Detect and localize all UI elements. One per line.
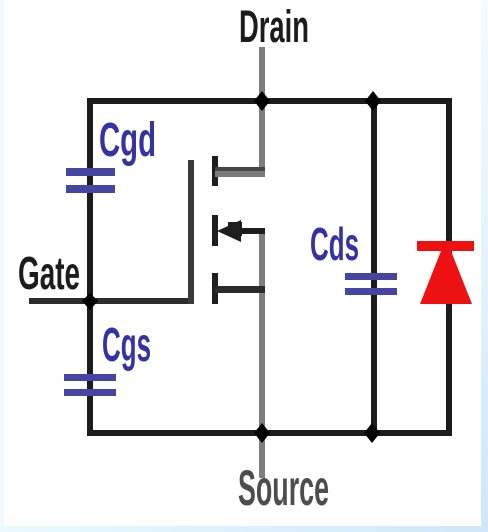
svg-text:Gate: Gate xyxy=(18,247,80,299)
transistor Q1 channel segment drain xyxy=(212,156,218,186)
transistor Q1 drain horizontal xyxy=(215,167,265,171)
svg-text:Drain: Drain xyxy=(239,1,309,52)
svg-text:Cgs: Cgs xyxy=(102,319,151,372)
wire: bottom rail (source net) xyxy=(87,430,452,436)
transistor Q1 channel segment body xyxy=(212,215,218,246)
wire: right vertical (diode branch) xyxy=(446,98,452,436)
junction dot top-left (drain lead) xyxy=(254,91,270,111)
diode D1 triangle xyxy=(420,251,472,304)
junction dot bottom-right (Cds branch) xyxy=(364,423,380,443)
svg-text:Cgd: Cgd xyxy=(99,114,156,167)
junction dot top-right (Cds branch) xyxy=(365,91,381,111)
diode D1 cathode bar xyxy=(417,241,474,251)
wire: top rail (drain net) xyxy=(87,98,452,104)
right border band xyxy=(481,0,488,532)
left border band xyxy=(0,0,4,532)
junction dot bottom-left (source lead) xyxy=(254,423,270,443)
wire: left vertical (gate net) xyxy=(87,98,93,436)
bottom border band xyxy=(0,526,488,532)
wire: drain lead (gray) xyxy=(259,47,265,177)
transistor Q1 source horizontal xyxy=(215,286,265,293)
capacitor Cgs plates xyxy=(64,374,116,381)
transistor Q1 body arrowhead xyxy=(217,220,241,242)
capacitor Cgd plates xyxy=(66,168,115,176)
transistor Q1 gate bar xyxy=(188,160,194,304)
svg-text:Source: Source xyxy=(238,460,329,516)
wire: gate horizontal xyxy=(29,298,194,304)
capacitor Cds plates xyxy=(345,273,397,280)
wire: source lead (gray) xyxy=(259,233,265,478)
wire: Cds branch vertical xyxy=(371,104,377,430)
transistor Q1 body arrow line xyxy=(234,228,265,234)
svg-text:Cds: Cds xyxy=(310,218,359,270)
junction dot gate xyxy=(82,293,98,310)
transistor Q1 channel segment source xyxy=(212,273,218,304)
